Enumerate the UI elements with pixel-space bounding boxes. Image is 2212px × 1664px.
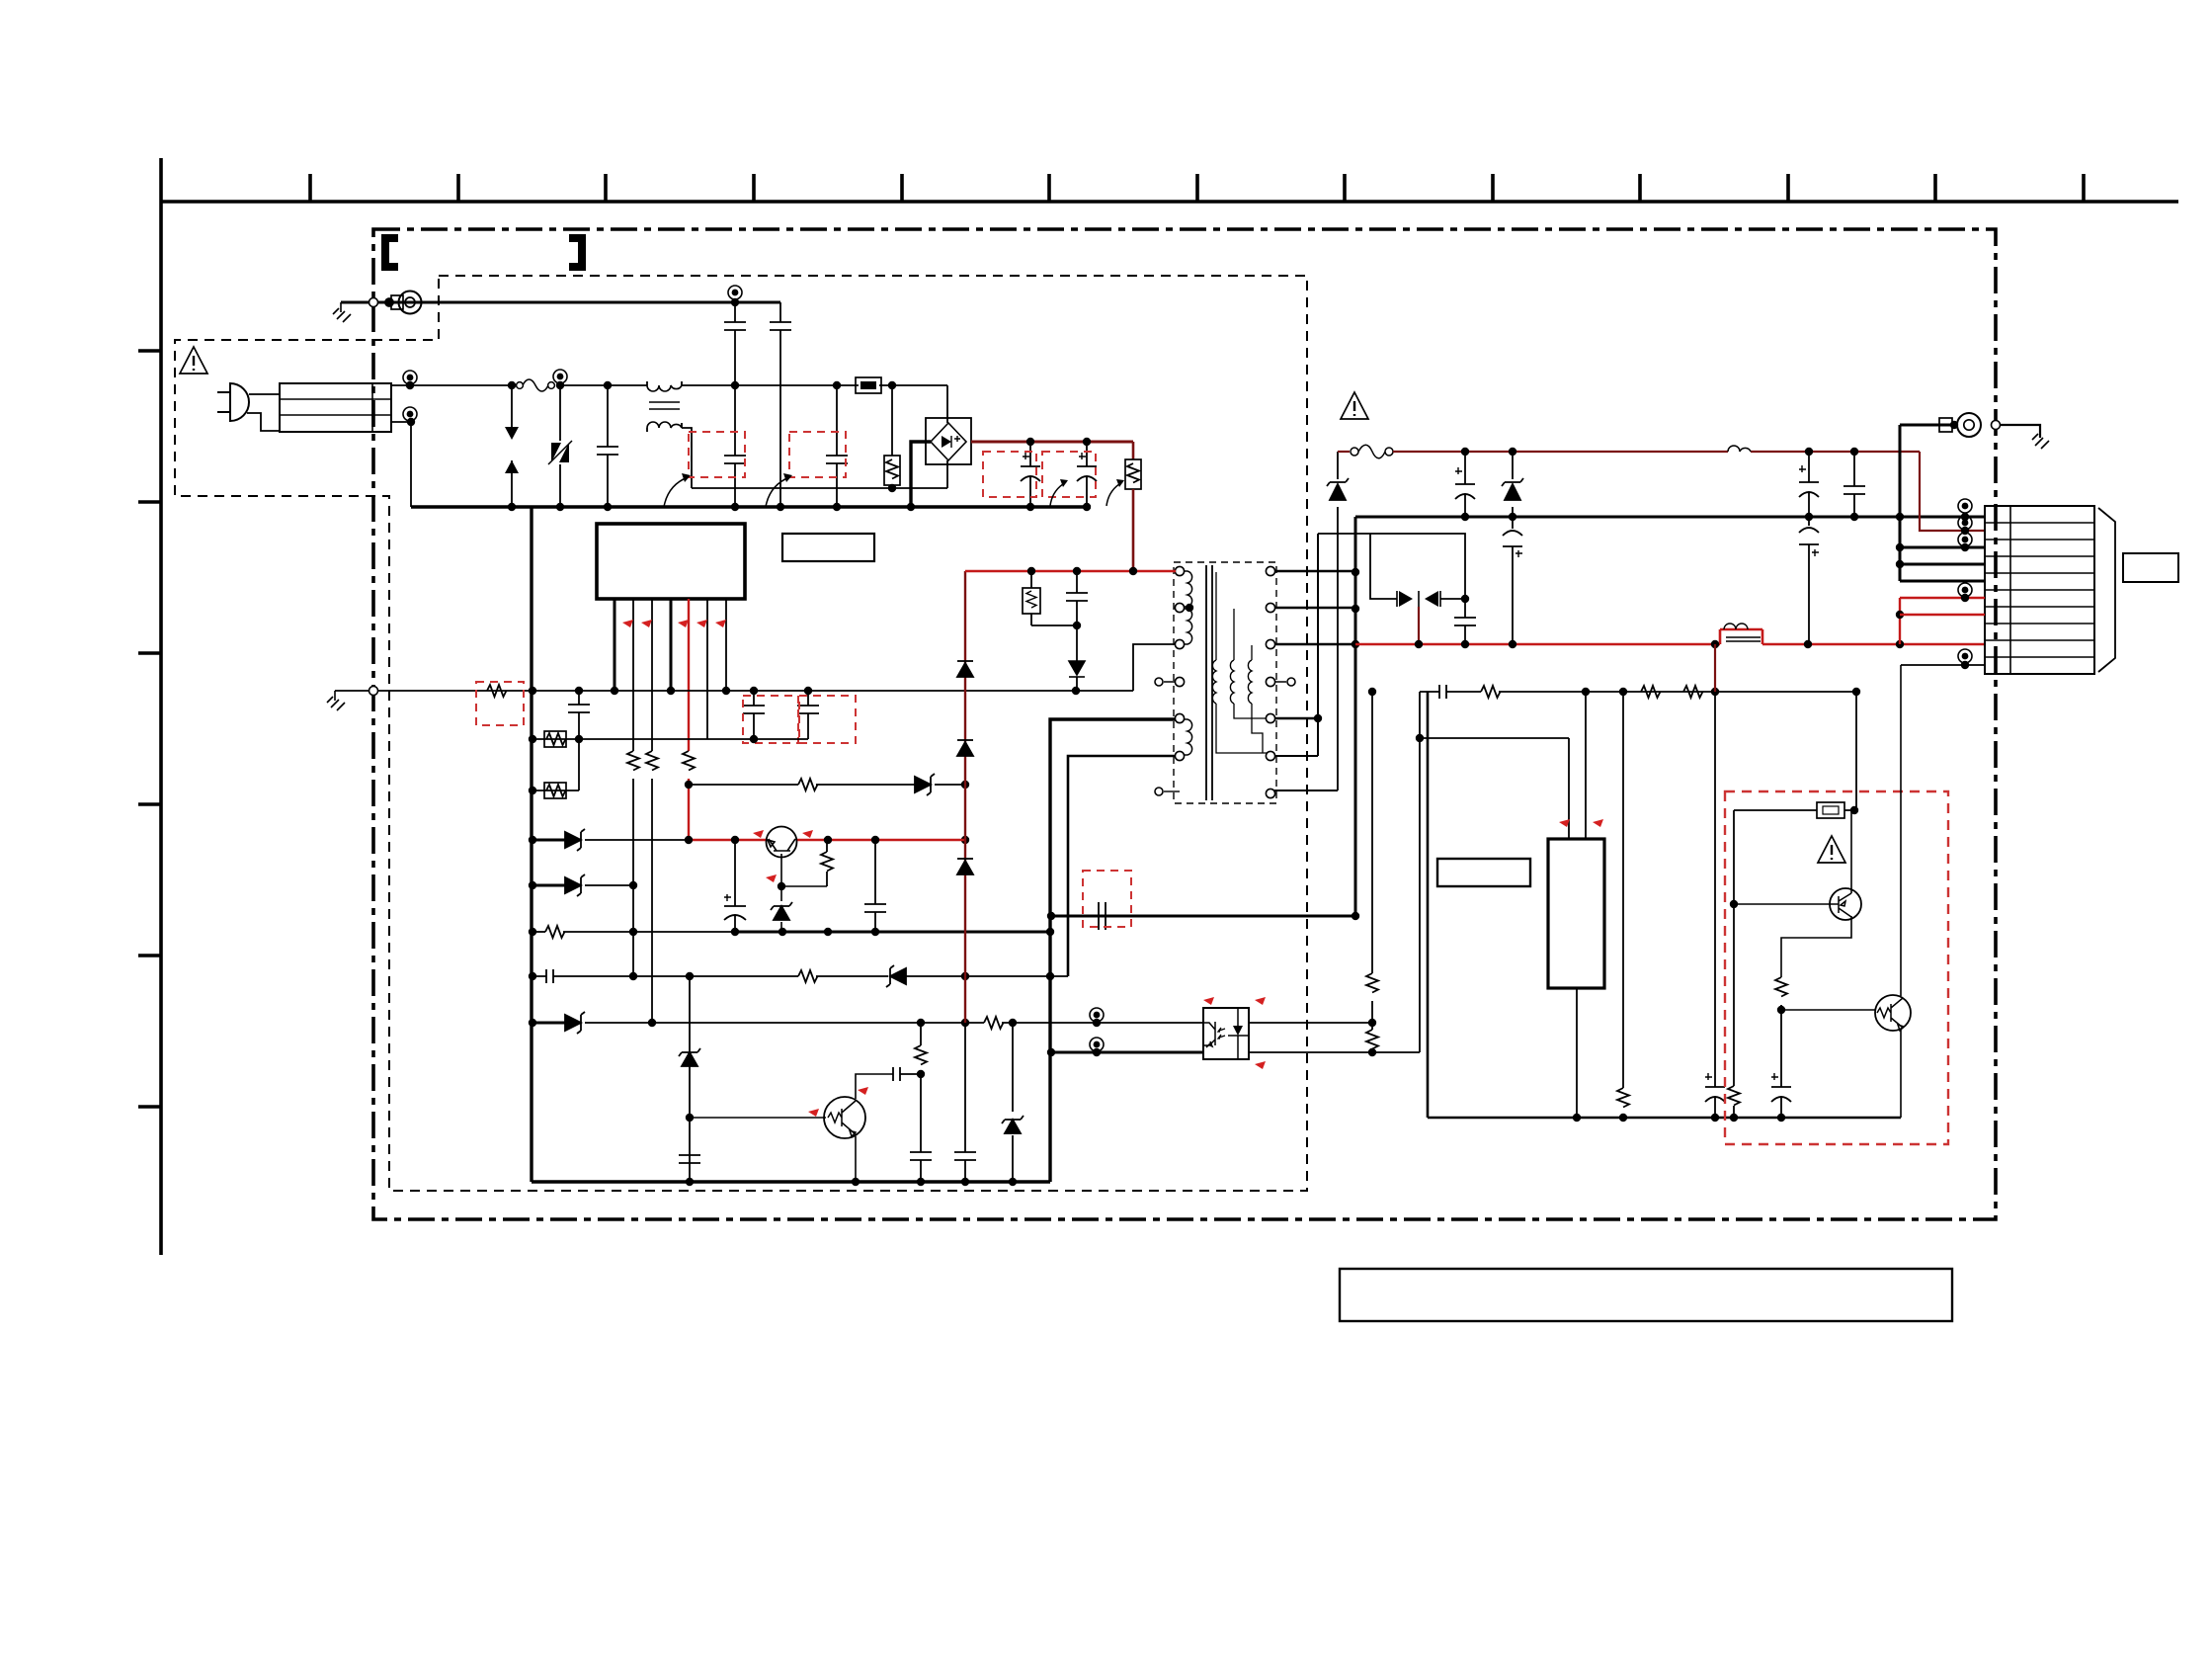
zener D5 row 1035 [533,1022,565,1025]
T1 secondary winding 1 [1212,660,1216,704]
shunt regulator IC2 [1548,839,1604,988]
wire filter out N [391,422,411,507]
T1 core [1206,565,1212,800]
wire Q4 base [1781,1009,1875,1011]
wire row 800 [533,739,579,790]
wire choke N out [682,428,692,488]
test arrows Q1 [753,830,764,838]
resistor R5 boxed [544,783,566,798]
resistor R7 row 988 [798,970,818,982]
line filter block [280,383,391,432]
vertical snubber feed [1317,534,1319,756]
fusible resistor RF1 [856,377,881,393]
resistor R2 boxed on DC plus [1132,442,1135,459]
thick vertical right [1899,425,1902,581]
zener D7 under Q1 [780,886,782,901]
T1 secondary internal wires [1216,572,1267,753]
red box R3 [476,682,524,725]
capacitor Y2 [770,302,791,507]
capacitor C5 electrolytic [1021,442,1040,507]
opto coupler PC1 [1203,1008,1249,1059]
thick vertical sec [1354,517,1357,916]
wire reg to ground [1576,988,1578,1118]
ground lug terminal top [385,298,393,306]
capacitor C8 [743,691,765,739]
terminal opto row2 [1090,1038,1104,1051]
T1 stub pin left low [1164,790,1180,792]
choke L1 common mode [647,385,682,391]
pin 3 wire [651,599,653,751]
wire red main rail [1355,629,1985,644]
transistor Q4 digital [1875,995,1911,1031]
warning triangle feedback box [1818,836,1845,863]
capacitor C26 electrolytic [1771,1010,1791,1118]
resistor R10 [920,1023,922,1045]
resistor R6 row 943 [533,931,545,933]
transistor Q1 inline [767,827,797,858]
border ruler left ticks [138,351,161,1107]
capacitor C23 electrolytic right lower [1799,517,1819,644]
zener D3 row 896 [533,884,565,887]
AC plug [230,383,249,421]
warning triangle secondary [1341,392,1368,419]
wire sec row4 [1274,717,1318,719]
red box C9 [799,696,856,743]
capacitor C10 row 988 [533,969,798,983]
boundary primary dashed outline [175,276,1307,1191]
wire sec row3 [1274,643,1355,645]
vertical zener branch [1337,452,1339,790]
T1 secondary winding 3 [1248,660,1252,704]
capacitor C16 [954,1152,976,1182]
capacitor CX2 [826,385,848,507]
capacitor C22 electrolytic right [1799,452,1819,517]
resistor R0 vertical [891,385,893,456]
red drop to connector [1920,452,1985,531]
junctions thick rail [529,735,536,743]
node open circle on boundary [369,298,378,307]
T1 primary winding upper [1184,571,1192,607]
capacitor C9 [797,691,819,739]
capacitor C21 [1454,599,1476,644]
wire sec row2 [1274,607,1355,609]
wire row 747 [1420,738,1569,839]
surge arrester SG1 [511,385,513,507]
resistor R11 boxed [1030,571,1032,588]
wire red primary top [965,570,1176,572]
wire bridge DC minus [911,442,931,507]
resistor R12 [1481,686,1501,698]
wire row 794 [689,784,798,786]
border ruler top line [161,200,2178,204]
connector bracket [2098,508,2115,672]
T1 primary pins left [1175,566,1184,575]
capacitor C17 boxed [1099,902,1106,930]
thick rail to transformer low2 [1068,756,1180,976]
junction DC plus [1026,438,1034,446]
wire conn row3 [1900,546,1985,549]
red dashed box feedback [1725,791,1948,1144]
thick left rail [530,507,533,1182]
resistor R8 row 1035 [984,1017,1004,1029]
label box IC2 [1437,859,1530,886]
wire sec ground rail [1428,692,1901,1118]
label box IC1 [782,534,874,561]
vertical reg pin2 [1585,692,1587,839]
pin 6 wire [706,599,708,739]
border ruler left line [159,158,163,1255]
capacitor C24 [1843,452,1865,517]
wire main row 699 [335,690,1076,692]
wire conn row5 [1900,580,1985,583]
boundary dash-dot box [373,229,1996,1219]
zener D15 [1512,452,1514,517]
bracket right [569,238,582,267]
fusible resistor RF2 [1734,809,1817,811]
connector CN1 [1985,506,2094,674]
inductor L2 [1728,446,1751,452]
resistor R16 [1775,977,1787,997]
wire conn row6 red [1900,597,1985,599]
capacitor C11 electrolytic [724,840,746,932]
varistor VZ1 [559,385,561,507]
red box C6 [1042,452,1096,497]
capacitor C20 electrolytic below rail [1503,517,1522,644]
wire earth bar top [341,301,780,304]
zener D14 [1327,478,1349,500]
junction AC top [508,381,516,389]
wire Q2 emitter [855,1136,857,1182]
diode D8 [957,661,973,677]
resistor R4 boxed [544,731,566,747]
zener D12 [1012,1023,1014,1112]
wire bridge DC plus [971,441,1133,444]
junction earth bar [731,298,739,306]
T1 primary winding aux [1184,719,1192,755]
resistor R14 [1683,686,1703,698]
wire red row 850 [689,839,965,841]
wire row 748 [533,738,808,740]
warning triangle plug area [180,347,207,374]
red box CX1 [689,432,745,477]
thick rail to transformer low1 [1050,719,1180,1182]
pin 4 wire [670,599,673,691]
diode D10 [957,859,973,874]
capacitor C12 [864,840,886,932]
resistor R15 [1622,692,1624,1088]
wire primary ground bottom [532,1180,1050,1183]
wire conn row9 [1901,664,1985,666]
terminal opto row1 [1090,1008,1104,1022]
capacitor C15 [910,1152,932,1182]
double diode D16 [1399,591,1438,607]
transformer T1 dashed box [1174,562,1276,803]
pin 2 wire [632,599,634,751]
wire feedback top row [1420,691,1856,693]
pin 1 wire [614,599,616,691]
wire black sec top rail [1355,516,1985,519]
diode D13 [1076,625,1078,661]
ground symbol right [2032,434,2049,449]
fuse F1 [415,384,516,386]
bead L3 [1724,624,1761,641]
capacitor C7 [568,691,590,739]
red vertical aux rail [964,571,966,1023]
T1 mid pin stubs [1164,681,1286,683]
resistor R13 [1641,686,1661,698]
fuse F2 [1351,448,1358,456]
zener D6 row 794 [915,774,935,795]
T1 secondary pins right [1266,566,1274,575]
wire filter out L [391,384,415,386]
zener D2 row 850 [533,839,565,842]
zener D11 [679,1048,700,1066]
label box connector [2123,553,2178,582]
terminals connector [1958,499,1972,513]
wire Q4 emitter [1900,1030,1902,1118]
IC1 PWM controller [597,524,745,599]
wire conn row4 [1900,563,1985,566]
pin 7 wire [725,599,727,691]
wire Q4 collector [1900,665,1902,996]
wire sec row1 [1274,570,1355,572]
terminal AC mid [553,370,567,383]
ground symbol top left [333,302,351,322]
vertical left feedback [1419,692,1421,1052]
wire row 652 to 699 [1076,644,1176,691]
junction bottom rail [508,503,516,511]
ring terminal right [1900,424,1958,427]
resistor R3 [487,685,507,697]
wire AC neutral [692,460,947,488]
terminal above Y1 [728,286,742,299]
test arrows regulator [1559,819,1570,827]
wire opto row2 [1051,1051,1203,1054]
capacitor C14 [893,1067,921,1081]
red box CX2 [789,432,846,477]
bridge rectifier D1 [926,418,971,464]
zener D4 row 988 left [886,965,906,987]
terminal filter out N [403,407,417,421]
vertical pin5 lower [689,976,691,1182]
wire sec row5 [1274,755,1318,757]
wire red aux rail [1393,451,1920,453]
arrow to C6 [1106,482,1122,506]
capacitor Y1 [724,302,746,385]
wire opto out2 [1249,1051,1420,1053]
junction neutral [888,484,896,492]
capacitor C19 electrolytic [1455,452,1475,517]
transistor Q2 digital [824,1097,865,1138]
arrow to CX1 [664,477,688,507]
ground symbol row 699 [327,691,345,710]
T1 secondary winding 2 [1230,660,1234,704]
capacitor C13 [679,1155,700,1163]
wire Q2 collector [856,1074,893,1099]
red branch verticals [1899,598,1901,644]
open circle row 699 boundary [369,687,378,696]
capacitor CX0 [597,385,618,507]
wire conn row7 red [1900,614,1985,616]
test arrows IC pins [622,620,633,627]
opto feedback resistors [1371,692,1373,973]
wire opto out1 [1249,1022,1372,1024]
bracket left [385,238,398,267]
arrow to C5 [1050,482,1066,506]
terminal filter out L [403,371,417,384]
red box C8 [743,696,798,743]
transistor Q3 [1830,888,1861,920]
red fuse corner [1338,451,1350,453]
wire AC bottom rail [411,505,1091,508]
wire VCC to snubber right [1051,915,1355,918]
red drop from main rail [1714,644,1716,692]
red box C5 [983,452,1036,497]
wire VCC rail thick [735,931,1050,934]
border ruler top ticks [310,174,2084,202]
vertical inner left [1733,810,1735,1086]
label box bottom [1340,1269,1952,1321]
capacitor C18 [1066,571,1088,625]
snubber box D16 [1318,534,1465,599]
vertical box right edge [1855,692,1857,810]
wire plug to filter [247,394,280,431]
red rail lower caps [964,1023,966,1152]
arrow to CX2 [766,477,789,507]
wire AC line top [559,385,947,423]
diode D9 [957,740,973,756]
capacitor CX1 [724,385,746,507]
resistor R9 [826,840,828,852]
capacitor C6 electrolytic [1077,442,1097,507]
junctions row 699 [529,687,536,695]
capacitor C25 electrolytic [1705,692,1725,1118]
pin 5 wire red [688,599,690,751]
wire sec row6 [1274,790,1338,791]
